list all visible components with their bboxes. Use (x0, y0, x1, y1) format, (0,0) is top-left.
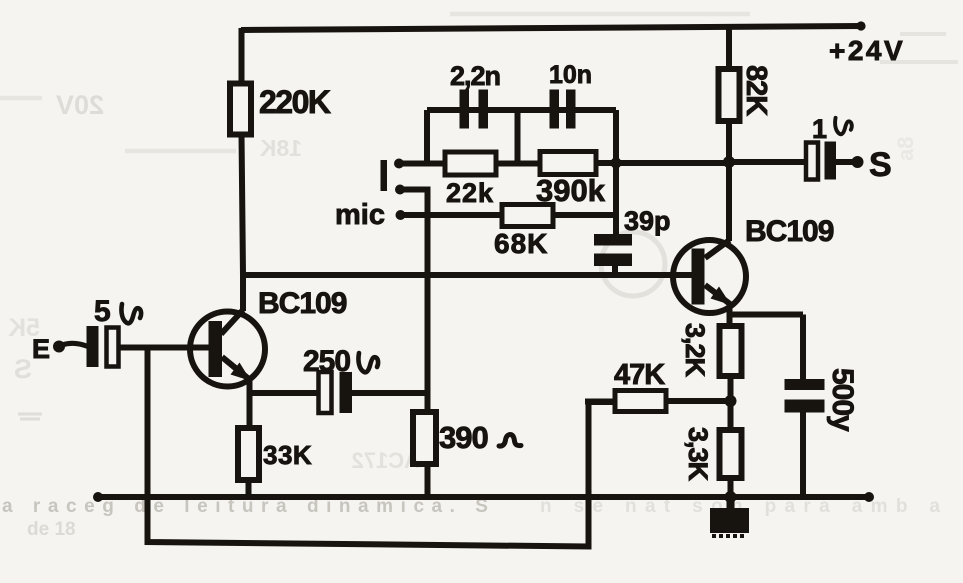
label 3,3K rotated (683, 427, 713, 482)
capacitor C 10n plates (550, 90, 576, 129)
wire caps net down to contact1 (424, 110, 430, 164)
label 220K (259, 84, 331, 120)
faint bleed-through ring (601, 232, 665, 296)
svg-text:a8: a8 (893, 137, 918, 161)
capacitor C 1u plate left (806, 143, 818, 180)
node switch contact 1 (394, 159, 404, 169)
node switch contact 3 mic (396, 210, 406, 220)
label BC109 (Q2) (745, 215, 834, 248)
ground symbol (710, 497, 749, 536)
svg-text:de 18: de 18 (27, 519, 76, 540)
label 1u (812, 114, 852, 144)
svg-text:33K: 33K (263, 440, 312, 470)
node rail right terminal (864, 492, 874, 502)
svg-text:3,3K: 3,3K (683, 427, 713, 482)
svg-text:AC172: AC172 (352, 448, 420, 473)
svg-text:5: 5 (94, 295, 111, 328)
resistor 33K (238, 428, 259, 480)
node divider junction (725, 395, 737, 407)
capacitor C 250u plate left (319, 372, 332, 413)
capacitor C 39p plates (594, 234, 632, 266)
svg-text:47K: 47K (614, 359, 665, 391)
label 500u rotated (826, 368, 859, 432)
svg-text:S: S (14, 354, 32, 384)
label E input (32, 334, 50, 364)
transistor Q1 collector stroke (221, 310, 243, 334)
wire feedback from E node down and right to 47K (148, 348, 617, 547)
resistor 82K (719, 69, 740, 121)
wire 47K left to feedback (585, 399, 615, 405)
svg-text:S: S (869, 146, 892, 184)
wire caps top net (427, 107, 616, 113)
svg-text:390: 390 (439, 420, 488, 455)
faint bleed-through marks left-middle (18, 414, 42, 419)
svg-text:BC109: BC109 (745, 215, 834, 248)
node top-right rail terminal dot (856, 21, 865, 30)
wire 500u bottom to rail (800, 413, 806, 498)
label BC109 (Q1) (258, 287, 347, 320)
svg-text:82K: 82K (740, 65, 772, 116)
svg-text:1: 1 (812, 114, 827, 144)
svg-text:3,2K: 3,2K (680, 323, 710, 378)
svg-text:BC109: BC109 (258, 287, 347, 320)
wire 3,3K to rail (728, 478, 734, 497)
switch pole bar (381, 160, 388, 191)
wire Q2 emitter down (727, 304, 733, 326)
faint bleed-through AC172 ghost (352, 448, 420, 473)
node junction 390k right (611, 158, 622, 169)
wire 500u top (800, 315, 806, 381)
wire 250u to 390R line (352, 390, 427, 396)
wire Q1 emitter to 250u (250, 390, 320, 396)
label 47K (614, 359, 665, 391)
wire 390R bottom to rail (425, 464, 431, 497)
wire 82K from rail (726, 26, 732, 69)
svg-text:18K: 18K (259, 135, 302, 161)
label +24V (829, 35, 905, 66)
transistor Q1 emitter stroke (222, 357, 251, 381)
wire main ground rail (97, 494, 870, 500)
label 5u (94, 295, 141, 328)
resistor 390R (413, 412, 436, 464)
transistor Q2 emitter stroke (705, 285, 731, 305)
transistor Q1 BC109 circle (190, 312, 265, 387)
capacitor C 250u plate right (340, 372, 353, 413)
wire 82K to collector junction (726, 121, 732, 241)
capacitor C 1u plate right (825, 142, 837, 180)
node rail left terminal (93, 492, 103, 502)
node S terminal (852, 156, 864, 168)
capacitor C 5u plate left (87, 326, 99, 367)
resistor 3,3K (720, 430, 742, 478)
capacitor C 5u plate right (107, 328, 119, 367)
wire 22k to 390k (496, 161, 540, 167)
wire Q2 emitter to 500u (730, 312, 804, 318)
resistor 68K (502, 205, 553, 227)
svg-text:E: E (32, 334, 50, 364)
transistor Q2 collector stroke (705, 240, 730, 258)
wire 390k to 82K junction (596, 160, 729, 166)
label 33K (263, 440, 312, 470)
wire divider node to 47K (666, 398, 730, 404)
wire 39p to Q2 base wire (612, 266, 618, 276)
wire Q1 collector to Q2 base (y275) (243, 272, 692, 278)
wire contact2 corner down (400, 190, 428, 413)
node E input terminal (53, 341, 88, 353)
wire 33K to ground rail (246, 480, 252, 495)
svg-text:39p: 39p (624, 206, 671, 236)
wire top supply rail (241, 26, 862, 30)
resistor 220K (230, 84, 251, 135)
wire mic contact to 68K (401, 212, 504, 218)
resistor 3.2K (720, 326, 742, 376)
capacitor C 2.2n plates (460, 90, 489, 129)
faint bleed-through text bottom line left (2, 496, 488, 517)
label 82K rotated (740, 65, 772, 116)
faint bleed-through text bottom second line (27, 519, 76, 540)
faint bleed-through text bottom line right (540, 496, 940, 517)
svg-text:mic: mic (335, 199, 385, 231)
wire left vertical from rail to 220K (239, 28, 245, 84)
svg-text:10n: 10n (549, 61, 592, 89)
wire 1u to S (836, 159, 856, 165)
label 2.2n (450, 61, 500, 91)
label 390R (439, 420, 521, 455)
svg-text:220K: 220K (259, 84, 331, 120)
svg-text:68K: 68K (494, 228, 548, 259)
faint bleed-through 18K mark (259, 135, 302, 161)
wire vertical feedback node down to 39p (613, 110, 619, 235)
transistor Q1 base bar (209, 321, 223, 377)
label 10n (549, 61, 592, 89)
node ground junction (725, 491, 737, 503)
node 82K collector junction (723, 156, 735, 168)
wire mid caps junction down (515, 110, 521, 164)
wire junction to 1u cap (729, 159, 806, 165)
wire contact1 to 22k (399, 161, 446, 167)
svg-text:2,2n: 2,2n (450, 61, 500, 91)
svg-text:20V: 20V (56, 90, 104, 120)
wire Q1 emitter down to 33K (247, 380, 253, 428)
svg-text:500y: 500y (826, 368, 859, 432)
faint bleed-through dashes top-left (0, 14, 750, 151)
wire 3.2K to divider node (728, 376, 734, 430)
wire 220K to Q1 collector (242, 134, 244, 311)
faint bleed-through S left edge (14, 354, 32, 384)
label 68K (494, 228, 548, 259)
resistor 390k (540, 152, 596, 175)
label 390k (536, 173, 606, 208)
label 250u (303, 345, 378, 378)
label 39p (624, 206, 671, 236)
label S (869, 146, 892, 184)
label mic (335, 199, 385, 231)
transistor Q2 base bar (692, 249, 705, 305)
capacitor C 500u plates (785, 379, 825, 413)
faint bleed-through 5K left edge (8, 314, 40, 342)
resistor 22k (445, 152, 496, 175)
wire 68K right to vertical (553, 212, 616, 218)
faint bleed-through text 20Y top-left (56, 90, 104, 120)
resistor 47K (615, 391, 666, 412)
transistor Q2 BC109 circle (673, 240, 746, 313)
wire 5u to Q1 base (119, 345, 211, 351)
node switch contact 2 (395, 185, 405, 195)
faint bleed-through marks right column (880, 34, 958, 161)
label 22k (446, 178, 494, 208)
label 3,2K rotated (680, 323, 710, 378)
svg-text:+24V: +24V (829, 35, 905, 66)
svg-text:22k: 22k (446, 178, 494, 208)
svg-text:250: 250 (303, 345, 350, 378)
